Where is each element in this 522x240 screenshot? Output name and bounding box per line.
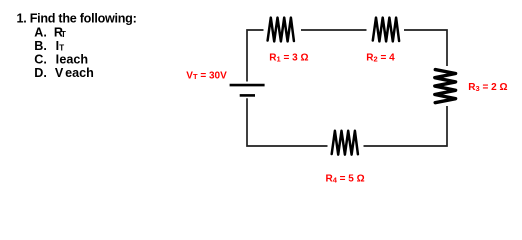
wire: R4 to bottom-left corner up to battery: [247, 98, 328, 146]
wire: R2 to top-right corner down to R3: [404, 30, 447, 66]
resistor R1: [268, 18, 294, 42]
svg-text:D.: D.: [34, 66, 47, 80]
svg-text:R1 = 3 Ω: R1 = 3 Ω: [269, 53, 308, 64]
svg-text:R2 = 4: R2 = 4: [366, 53, 395, 64]
svg-text:C.: C.: [34, 53, 47, 67]
battery VT negative plate: [240, 94, 255, 97]
resistor R2: [373, 18, 399, 42]
svg-text:T: T: [59, 43, 64, 52]
svg-text:VT = 30V: VT = 30V: [186, 70, 227, 81]
svg-text:T: T: [61, 30, 66, 39]
wire: between R1 and R2: [301, 29, 367, 31]
svg-text:A.: A.: [34, 26, 47, 40]
svg-text:each: each: [65, 66, 94, 80]
battery VT positive plate: [230, 84, 265, 87]
svg-text:R4 = 5 Ω: R4 = 5 Ω: [326, 174, 365, 185]
wire: R3 to bottom-right corner to R4: [364, 106, 448, 146]
svg-text:R3 = 2 Ω: R3 = 2 Ω: [468, 82, 507, 93]
resistor R4: [332, 131, 358, 155]
svg-text:1. Find the following:: 1. Find the following:: [17, 11, 137, 25]
svg-text:each: each: [59, 53, 88, 67]
wire: top-left corner to R1: [247, 30, 264, 82]
resistor R3: [435, 70, 456, 103]
svg-text:B.: B.: [34, 39, 47, 53]
svg-text:V: V: [55, 66, 64, 80]
